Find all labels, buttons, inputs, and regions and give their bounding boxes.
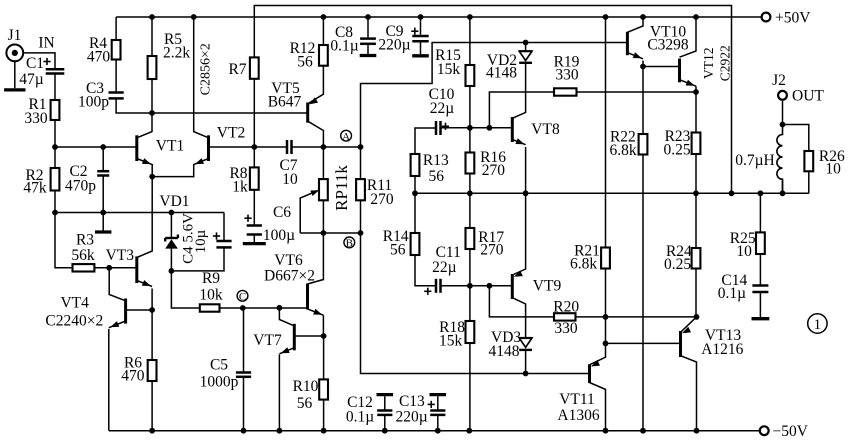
label C7 (279, 157, 297, 174)
value R8 (232, 179, 248, 196)
svg-text:56: 56 (429, 168, 445, 185)
svg-text:B647: B647 (268, 94, 302, 111)
value R14 (390, 242, 406, 259)
wire VT8 base to R19 (489, 92, 554, 128)
wire R24 top (695, 193, 697, 248)
wire R22 top lead (642, 67, 644, 135)
svg-text:470: 470 (87, 49, 111, 66)
wire VT10 emitter (642, 61, 644, 67)
svg-text:330: 330 (24, 110, 48, 127)
resistor R5 (148, 56, 157, 79)
resistor R10 (319, 379, 328, 399)
junction RP1 bottom (321, 230, 327, 236)
wire VT6 collector (308, 233, 324, 284)
label VT10 (650, 24, 686, 41)
value R25 (736, 243, 752, 260)
resistor R2 (51, 168, 60, 191)
value R4 (87, 49, 111, 66)
wire R10 bottom (323, 400, 325, 431)
ground at J1 (4, 88, 25, 91)
junction VT3 emitter (149, 307, 155, 313)
ground below C14 (752, 317, 770, 320)
junction node B (358, 230, 364, 236)
value R22 (609, 142, 636, 159)
wire C2 top (102, 147, 104, 171)
junction R6 bottom (149, 428, 155, 434)
wire L bottom (782, 181, 784, 193)
ground below C6 (243, 242, 266, 245)
svg-text:A: A (342, 131, 350, 143)
terminal +50V (762, 13, 771, 22)
svg-text:C: C (239, 291, 246, 303)
label R20 (553, 299, 579, 316)
value R1 (24, 110, 48, 127)
resistor R19 (554, 88, 577, 95)
label VT7 (253, 332, 282, 349)
junction VT8 emitter (523, 190, 529, 196)
wire L top to R26 (783, 125, 809, 152)
svg-text:15k: 15k (439, 333, 463, 350)
plus C10 (442, 123, 449, 130)
value R24 (664, 256, 691, 273)
label VT3 (106, 247, 135, 264)
wire VT7 emitter (278, 355, 280, 431)
junction VT13 base (603, 341, 609, 347)
wire C11 to VT9 base (441, 285, 513, 287)
wire C9 top (420, 17, 422, 35)
connector J1 (6, 45, 23, 89)
svg-text:J2: J2 (772, 72, 786, 89)
ground below C2 (95, 230, 111, 233)
svg-text:10k: 10k (199, 287, 223, 304)
label VT13 (705, 327, 741, 344)
transistor VT11 (590, 360, 601, 383)
resistor R13 (411, 154, 420, 176)
wire VT2 base (209, 146, 255, 148)
svg-text:R9: R9 (202, 270, 220, 287)
transistor VT5 (308, 97, 318, 122)
junction VT7 emitter (277, 428, 283, 434)
value VD2 (486, 65, 517, 82)
transistor VT13 (681, 327, 691, 357)
value R26 (825, 161, 841, 178)
resistor R25 (756, 232, 765, 254)
terminal J2 OUT (778, 91, 787, 100)
svg-text:100µ: 100µ (263, 227, 295, 244)
svg-text:VD1: VD1 (159, 193, 189, 210)
label C9 (385, 23, 403, 40)
wire R24 bottom (695, 269, 697, 317)
wire C10 left (415, 128, 436, 154)
wire R4 top (115, 17, 117, 40)
label R7 (228, 61, 246, 78)
svg-text:VT7: VT7 (253, 332, 282, 349)
value VT12 (717, 45, 732, 81)
svg-text:VT6: VT6 (274, 252, 303, 269)
wire R21 bottom (605, 269, 607, 317)
wire R17 top (469, 193, 471, 228)
label R26 (819, 148, 845, 165)
svg-text:56: 56 (297, 395, 313, 412)
wire VT13 base node (606, 317, 681, 344)
label R22 (610, 129, 636, 146)
label C4 5.6V (181, 213, 197, 264)
wire VT12 collector (680, 17, 697, 57)
wire R23 bottom (695, 154, 697, 193)
junction VT10 collector (640, 14, 646, 20)
value R15 (437, 61, 461, 78)
capacitor C5 (236, 373, 251, 377)
svg-text:R7: R7 (228, 61, 246, 78)
wire VD1 top (170, 213, 172, 239)
svg-text:56: 56 (390, 242, 406, 259)
wire R15 bottom (469, 86, 471, 128)
svg-text:C13: C13 (399, 393, 425, 410)
value C11 (432, 259, 457, 276)
junction R21 top (603, 14, 609, 20)
value C14 (718, 285, 746, 302)
wire VT3 base to VT4 collector (109, 268, 125, 301)
wire R25 top (759, 193, 761, 232)
value R17 (480, 242, 504, 259)
wire VD1 to R9 (171, 271, 199, 308)
junction R23 R24 (693, 190, 699, 196)
label VT5 (271, 80, 300, 97)
junction node C R9 (240, 305, 246, 311)
wire VT12 emitter (695, 86, 697, 92)
wire R15 top (469, 17, 471, 65)
wire VD1 bottom (170, 249, 172, 271)
label C5 (210, 357, 228, 374)
capacitor C8 (360, 39, 376, 44)
svg-text:270: 270 (480, 242, 504, 259)
resistor R20 (554, 313, 576, 320)
svg-text:6.8k: 6.8k (570, 255, 597, 272)
svg-text:270: 270 (370, 191, 394, 208)
wire R26 bottom (808, 171, 810, 193)
wire VT1 emitter join (152, 164, 194, 177)
label J1 (8, 27, 22, 44)
wire R16 bottom (469, 174, 471, 194)
junction C12 bottom (382, 428, 388, 434)
svg-text:56k: 56k (71, 247, 95, 264)
svg-text:56: 56 (297, 54, 313, 71)
inductor 0.7uH (777, 125, 783, 194)
label VT12 (701, 47, 716, 78)
junction L bottom (780, 190, 786, 196)
junction R5 top (149, 14, 155, 20)
resistor R9 (200, 304, 220, 311)
svg-text:R20: R20 (553, 299, 579, 316)
wire VT2 collector (194, 17, 209, 138)
wire R20 to VT13 node (576, 316, 697, 318)
value R9 (199, 287, 223, 304)
junction R2 bottom (52, 210, 58, 216)
value VT10 (647, 37, 689, 54)
junction VD3 bottom (523, 371, 529, 377)
capacitor C9 (412, 36, 428, 41)
ground above C12 (377, 393, 394, 396)
resistor R21 (601, 248, 610, 269)
junction C2 top (100, 144, 106, 150)
wire node A to VD2 row (361, 43, 628, 148)
diode VD3 (519, 338, 532, 350)
label C12 (347, 394, 373, 411)
capacitor C2 (97, 171, 109, 175)
svg-text:100p: 100p (78, 94, 109, 111)
wire J2 lead (782, 100, 784, 125)
svg-text:0.1µ: 0.1µ (346, 409, 374, 426)
junction C5 bottom (241, 428, 247, 434)
value C1 (19, 71, 44, 88)
label R15 (435, 47, 461, 64)
wire R4 to C3 (115, 60, 117, 93)
wire VT11 emitter lead (590, 343, 606, 364)
svg-text:330: 330 (555, 67, 579, 84)
junction R13 R14 (412, 190, 418, 196)
junction R1 bottom (52, 144, 58, 150)
plus C11 (424, 288, 431, 295)
svg-text:VT3: VT3 (106, 247, 135, 264)
resistor R16 (466, 153, 475, 174)
label R19 (554, 54, 580, 71)
svg-text:22µ: 22µ (430, 100, 455, 117)
wire VT5 collector (308, 121, 324, 147)
value C6 (263, 227, 295, 244)
wire R10 top (323, 336, 325, 379)
plus C6 (244, 215, 251, 222)
junction VT2 collector (191, 14, 197, 20)
svg-text:RP11k: RP11k (332, 165, 351, 211)
junction C2 bottom (100, 210, 106, 216)
wire ground rail (55, 212, 224, 214)
svg-text:R13: R13 (423, 152, 449, 169)
value VT11 (557, 407, 599, 424)
junction R18 bottom (466, 428, 472, 434)
junction C13 bottom (435, 428, 441, 434)
value C13 (396, 409, 428, 426)
capacitor C1 (46, 69, 65, 73)
wire VT6 emitter (322, 315, 324, 336)
wire R3 right to VT3 base (94, 267, 136, 269)
wire R11 top (360, 147, 362, 179)
value R2 (23, 180, 47, 197)
value R20 (554, 320, 578, 337)
wire R17 bottom (469, 249, 471, 286)
plus C1 (43, 58, 50, 65)
resistor R4 (112, 40, 121, 60)
wire R7 bottom (253, 79, 255, 147)
wire R19 to VT12 emitter (577, 91, 697, 93)
plus C4 (213, 232, 220, 239)
label C1 (26, 55, 44, 72)
terminal -50V (760, 426, 769, 435)
wire C8 top (367, 17, 369, 37)
wire J1 to C1 (23, 53, 55, 69)
svg-text:330: 330 (554, 320, 578, 337)
wire C7 to VT5 collector node (292, 146, 361, 148)
svg-text:+50V: +50V (775, 10, 811, 27)
wire VT13 emitter (681, 317, 697, 332)
node B (344, 237, 355, 250)
junction VT12 base (640, 64, 646, 70)
svg-text:10: 10 (282, 171, 298, 188)
junction R20 tap (487, 283, 493, 289)
label C14 (721, 272, 747, 289)
svg-text:22µ: 22µ (432, 259, 457, 276)
wire VT9 collector to VD3 (512, 298, 525, 338)
wire input node (55, 146, 137, 148)
node C (237, 290, 248, 303)
label -50V (773, 423, 809, 440)
wire R14 to C11 (415, 255, 436, 286)
junction R15 top (467, 14, 473, 20)
svg-text:C2922: C2922 (717, 45, 732, 81)
value R5 (163, 45, 190, 62)
svg-text:C2856×2: C2856×2 (199, 43, 214, 95)
value R6 (121, 368, 145, 385)
wire VT4 emitter (108, 329, 110, 431)
wire emitters to VT3 collector (137, 177, 152, 258)
potentiometer RP1 (319, 179, 328, 200)
svg-text:0.7µH: 0.7µH (735, 152, 775, 169)
wire VT7 collector (279, 308, 294, 326)
transistor VT1 (137, 135, 152, 164)
label VD1 (159, 193, 189, 210)
label R10 (293, 378, 319, 395)
wire VT3 emitter (151, 289, 153, 311)
label R21 (574, 242, 600, 259)
svg-text:VT1: VT1 (156, 138, 184, 155)
wire VD2 to VT8 collector (512, 64, 525, 119)
ground below C9 (412, 54, 429, 57)
label R9 (202, 270, 220, 287)
resistor R22 (639, 134, 648, 155)
label VT4 (60, 295, 89, 312)
resistor R17 (466, 228, 475, 249)
label VT6 (274, 252, 303, 269)
diode VD2 (519, 51, 532, 63)
svg-text:1000p: 1000p (200, 374, 239, 391)
transistor VT8 (512, 117, 525, 145)
label VT1 (156, 138, 184, 155)
wire VD2 top lead (525, 43, 527, 52)
svg-text:220µ: 220µ (378, 37, 410, 54)
wire C6 gnd stub (253, 235, 255, 243)
value C4 (193, 229, 209, 253)
svg-text:B: B (346, 238, 353, 250)
wire +50V rail (116, 16, 762, 18)
label C10 (429, 86, 455, 103)
junction R21 bottom (603, 314, 609, 320)
wire RP1 wiper (300, 190, 319, 233)
wire VT1 collector (137, 113, 152, 138)
value R21 (570, 255, 597, 272)
value R13 (429, 168, 445, 185)
svg-text:6.8k: 6.8k (609, 142, 636, 159)
svg-text:1k: 1k (232, 179, 248, 196)
label R12 (290, 40, 316, 57)
svg-text:C2240×2: C2240×2 (45, 312, 103, 329)
ground below C8 (360, 54, 377, 57)
wire ground stub (102, 213, 104, 231)
transistor VT2 (194, 135, 209, 164)
junction R7 bottom (251, 144, 257, 150)
value VD3 (489, 343, 520, 360)
svg-text:D667×2: D667×2 (264, 268, 315, 285)
wire R12 top (322, 17, 324, 45)
resistor R11 (356, 179, 365, 200)
svg-text:0.1µ: 0.1µ (718, 285, 746, 302)
wire R18 top (469, 286, 471, 321)
capacitor C12 (377, 396, 392, 431)
svg-text:15k: 15k (437, 61, 461, 78)
label IN (38, 35, 54, 52)
label OUT (792, 88, 824, 105)
junction bootstrap (729, 190, 735, 196)
label C6 (273, 204, 291, 221)
resistor R12 (319, 45, 328, 66)
label RP1 (332, 165, 351, 211)
capacitor C14 (752, 286, 768, 293)
junction R22 bottom (640, 428, 646, 434)
junction VT12 emitter (693, 89, 699, 95)
value R10 (297, 395, 313, 412)
wire C2 bottom (102, 176, 104, 213)
wire R2 col to R3 (55, 213, 73, 268)
wire R13 bottom (414, 176, 416, 193)
value R16 (482, 162, 506, 179)
wire -50V rail (109, 430, 760, 432)
wire node B to VT11 base (361, 233, 590, 374)
transistor VT4 (109, 299, 126, 328)
wire output rail (415, 192, 809, 194)
svg-text:J1: J1 (8, 27, 22, 44)
label R11 (367, 177, 392, 194)
transistor VT3 (137, 256, 152, 286)
node A (341, 130, 352, 143)
junction VT7 base (321, 333, 327, 339)
junction VT8 base (467, 125, 473, 131)
resistor R8 (250, 167, 259, 189)
resistor R26 (804, 151, 813, 171)
capacitor C3 (109, 93, 124, 99)
junction R5 bottom (149, 110, 155, 116)
arrow RP1 wiper (310, 190, 319, 196)
wire VD3 bottom lead (525, 351, 527, 374)
transistor VT6 (308, 284, 324, 316)
svg-text:VT11: VT11 (559, 391, 595, 408)
label R23 (665, 128, 691, 145)
resistor R3 (73, 264, 95, 271)
wire VT12 base (643, 66, 680, 68)
junction VD1 bottom (169, 268, 175, 274)
junction R10 bottom (321, 428, 327, 434)
wire VT8 emitter (525, 147, 527, 193)
wire VT9 base to R20 (489, 286, 554, 317)
wire C10 to VT8 base (441, 127, 513, 129)
svg-text:10µ: 10µ (193, 229, 209, 253)
label R1 (28, 96, 46, 113)
junction VT13 emitter (694, 314, 700, 320)
svg-text:47k: 47k (23, 180, 47, 197)
value C2 (65, 178, 96, 195)
wire R21 lead (605, 17, 607, 248)
junction VT3 base (106, 265, 112, 271)
svg-text:470: 470 (121, 368, 145, 385)
value R12 (297, 54, 313, 71)
label C8 (335, 24, 353, 41)
